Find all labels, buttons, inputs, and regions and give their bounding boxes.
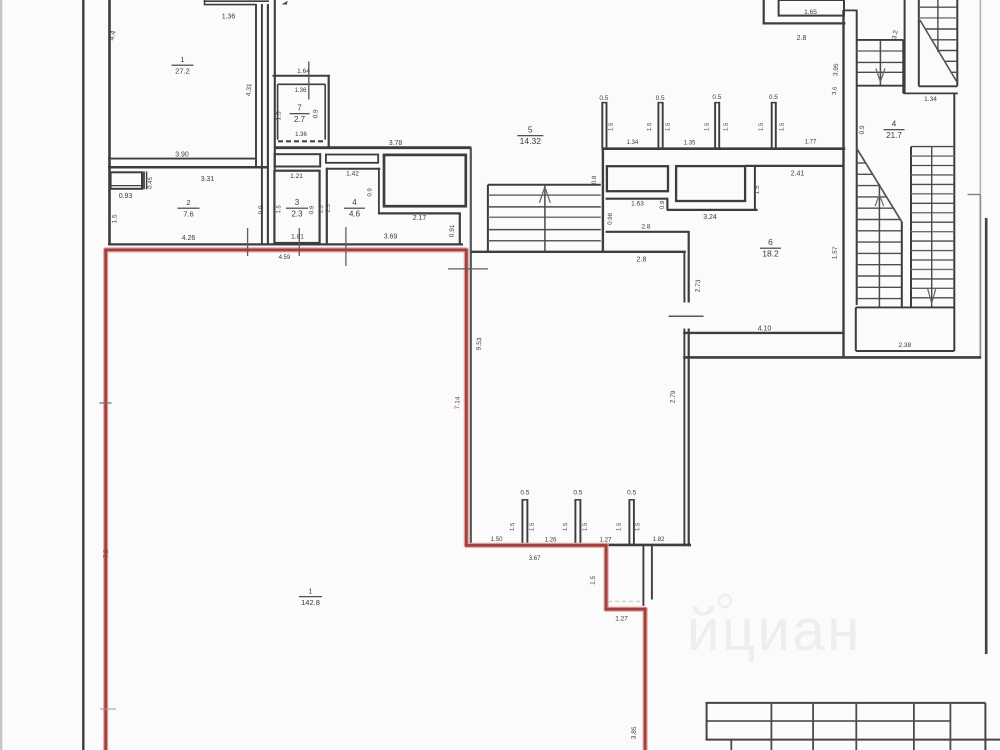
svg-text:0.5: 0.5 [712, 94, 721, 101]
room 4 top wall [326, 168, 380, 170]
big room area label [299, 587, 322, 608]
wall below middle box [667, 209, 758, 211]
stair wall between flights left [856, 11, 858, 306]
bar closet above room 4 [326, 155, 378, 163]
lower-left flight diagonal [857, 148, 902, 221]
svg-text:7: 7 [297, 104, 302, 113]
stair center line middle [544, 185, 546, 252]
svg-text:18.2: 18.2 [762, 249, 779, 259]
room 7 area label [290, 104, 310, 125]
svg-text:1.5: 1.5 [563, 522, 569, 531]
upper-left flight [857, 40, 904, 86]
wall under 2.41 [745, 165, 844, 167]
room 6 left wall outer [688, 231, 690, 546]
svg-text:2.73: 2.73 [694, 279, 702, 292]
svg-text:1.5: 1.5 [635, 522, 641, 531]
tick at right border [968, 194, 981, 196]
corridor wall to room 6 [606, 231, 689, 233]
red outline right upper [465, 249, 468, 547]
room 1 area label [172, 55, 194, 76]
upper-left flight down arrow [876, 68, 885, 81]
cabin stub 4 [771, 103, 777, 148]
building wall right of shaft [470, 148, 472, 546]
svg-text:0.45: 0.45 [147, 176, 154, 189]
tick room4 bottom [345, 227, 347, 266]
room 4 left wall [326, 168, 328, 244]
svg-text:6: 6 [768, 237, 773, 247]
red outline top [104, 248, 467, 251]
svg-text:0.98: 0.98 [607, 212, 614, 225]
svg-text:3.85: 3.85 [630, 726, 638, 739]
svg-text:1.5: 1.5 [510, 522, 516, 531]
svg-text:1.5: 1.5 [616, 522, 622, 531]
svg-text:1: 1 [180, 55, 184, 64]
flights bottom line [856, 306, 955, 308]
top box above room 1 [204, 0, 269, 5]
svg-text:0.5: 0.5 [573, 490, 582, 497]
room 1 right wall line A [255, 4, 257, 167]
svg-text:1.5: 1.5 [779, 122, 785, 131]
svg-text:0.8: 0.8 [592, 175, 598, 184]
svg-text:14.32: 14.32 [520, 136, 542, 146]
svg-text:1.5: 1.5 [582, 522, 588, 531]
svg-text:1.65: 1.65 [804, 9, 817, 16]
room 6 door tick [669, 315, 704, 317]
svg-text:0.93: 0.93 [119, 193, 133, 200]
svg-text:4.31: 4.31 [245, 83, 253, 97]
svg-text:0.5: 0.5 [656, 95, 665, 102]
small box above room 3 [275, 154, 321, 166]
upper-right flight left wall [904, 0, 906, 93]
watermark cian [687, 595, 862, 663]
wall step down [666, 199, 668, 211]
svg-text:2.7: 2.7 [294, 115, 306, 124]
svg-text:1.82: 1.82 [653, 537, 665, 543]
svg-text:0.9: 0.9 [859, 125, 866, 135]
cabin stub 1 [601, 103, 607, 148]
red outline bottom middle [465, 544, 608, 547]
wall below shaft box [378, 212, 461, 214]
upper-right flight box [919, 0, 958, 86]
svg-text:1.77: 1.77 [805, 140, 817, 146]
svg-text:3.69: 3.69 [384, 234, 398, 241]
red outline jog down [605, 544, 608, 611]
svg-text:27.2: 27.2 [175, 67, 190, 76]
room 6 area label [760, 237, 781, 259]
tick room3 bottom [298, 228, 300, 256]
svg-text:2.8: 2.8 [641, 224, 650, 231]
stub wall down left [642, 546, 644, 606]
lower-right flight box [911, 93, 954, 351]
faint remnant line [608, 600, 642, 602]
svg-text:1.5: 1.5 [665, 122, 671, 131]
page border right upper light [979, 0, 981, 195]
svg-text:0.9: 0.9 [312, 109, 319, 119]
room 1 right wall line B [261, 4, 263, 244]
svg-text:1.42: 1.42 [346, 171, 359, 178]
toilet box left [607, 166, 668, 191]
svg-text:3.90: 3.90 [175, 152, 189, 159]
corridor bottom wall [471, 251, 686, 253]
rooms 2-3-4 bottom wall [108, 243, 463, 245]
lower-left flight right edge [901, 222, 903, 308]
svg-text:1.5: 1.5 [647, 122, 653, 131]
svg-text:3: 3 [295, 198, 300, 207]
svg-text:1: 1 [308, 587, 312, 596]
lower-left flight center line [878, 184, 880, 307]
top right room bottom wall [763, 22, 846, 24]
svg-text:1.5: 1.5 [704, 122, 710, 131]
svg-text:4.10: 4.10 [758, 326, 772, 333]
landing line below upper flights [903, 92, 958, 94]
svg-text:1.50: 1.50 [491, 537, 503, 543]
svg-text:1.34: 1.34 [924, 96, 937, 103]
page border right mid [979, 195, 981, 357]
svg-text:21.7: 21.7 [886, 131, 902, 140]
svg-text:2.8: 2.8 [637, 257, 647, 264]
svg-text:1.5: 1.5 [590, 575, 597, 585]
toilet box middle [676, 166, 745, 201]
tick room2 bottom a [247, 228, 249, 256]
room 7 hatched bottom [278, 140, 325, 142]
svg-text:2.38: 2.38 [898, 342, 911, 349]
red outline jog right [605, 608, 647, 611]
room 6 left wall inner [683, 252, 685, 547]
svg-text:2.3: 2.3 [291, 210, 303, 219]
svg-text:1.35: 1.35 [684, 141, 696, 147]
svg-text:1.57: 1.57 [831, 246, 839, 259]
room 1 left wall [108, 0, 111, 168]
svg-text:3.24: 3.24 [703, 214, 717, 221]
top right room left wall [763, 0, 765, 25]
room 5 area label [517, 125, 543, 147]
room 2 area label [178, 198, 200, 219]
shaft box (lift) [384, 155, 466, 206]
upper-right flight treads [919, 7, 958, 72]
page border right dark [985, 218, 988, 654]
wall below room 5 corridor [274, 146, 471, 149]
svg-text:1.21: 1.21 [290, 173, 303, 180]
shaft wall line C [267, 4, 269, 244]
svg-text:3.95: 3.95 [832, 63, 840, 77]
svg-text:9.53: 9.53 [476, 337, 484, 350]
svg-text:0.5: 0.5 [520, 490, 529, 497]
stairwell area label [884, 120, 905, 141]
room 3 area label [286, 198, 308, 219]
upper-right flight diagonal [920, 20, 957, 82]
svg-text:1.36: 1.36 [295, 88, 307, 94]
svg-text:1.36: 1.36 [295, 132, 307, 138]
red outline top glow [104, 249, 646, 750]
title block middle line [706, 720, 951, 722]
svg-text:7.6: 7.6 [183, 210, 194, 219]
wall below left toilet box [606, 198, 669, 200]
svg-text:0.5: 0.5 [769, 94, 778, 101]
stair up arrow middle [539, 187, 550, 203]
svg-text:0.5: 0.5 [627, 490, 636, 497]
svg-text:1.5: 1.5 [758, 122, 764, 131]
svg-text:1.5: 1.5 [529, 522, 535, 531]
svg-text:0.91: 0.91 [448, 224, 456, 237]
svg-text:3.78: 3.78 [389, 140, 403, 147]
svg-text:3.67: 3.67 [529, 556, 541, 562]
stair treads middle [488, 195, 601, 241]
right section main wall [842, 10, 844, 358]
scan edge strip left [0, 0, 2, 750]
svg-text:5: 5 [528, 125, 533, 135]
svg-text:1.5: 1.5 [723, 122, 729, 131]
lower room bottom wall black [604, 544, 691, 547]
svg-text:1.63: 1.63 [631, 201, 644, 208]
title block verticals [707, 703, 986, 750]
room 4 right lower wall [459, 213, 461, 244]
connector wall to stairs [844, 9, 858, 11]
tick left red line upper [100, 402, 112, 404]
corridor left wall below cabins [602, 149, 604, 253]
svg-text:2.79: 2.79 [669, 390, 677, 403]
svg-text:7.14: 7.14 [454, 396, 462, 409]
shaft wall line D / room 7 left wall [274, 0, 276, 170]
room 2 left wall [108, 167, 111, 245]
svg-text:1.64: 1.64 [297, 68, 310, 75]
tick left red line lower [100, 708, 116, 710]
svg-text:1.27: 1.27 [615, 616, 628, 623]
svg-text:1.36: 1.36 [222, 14, 236, 21]
lower-right flight treads [911, 147, 954, 298]
room 6 bottom wall [683, 332, 844, 334]
svg-text:2: 2 [186, 198, 190, 207]
svg-text:4.59: 4.59 [279, 255, 291, 261]
svg-text:142.8: 142.8 [301, 598, 320, 607]
svg-text:1.34: 1.34 [627, 140, 639, 146]
svg-text:2.5: 2.5 [326, 203, 332, 212]
dimension tick through room 7 top wall [308, 62, 310, 100]
red outline right lower [644, 608, 647, 750]
svg-text:4.6: 4.6 [349, 210, 361, 219]
svg-text:7.2: 7.2 [103, 549, 110, 559]
triangle mark [282, 1, 288, 5]
svg-text:2.8: 2.8 [797, 35, 807, 42]
svg-text:4: 4 [352, 198, 357, 207]
svg-text:3.6: 3.6 [832, 86, 839, 95]
lower-left flight up arrow [875, 195, 884, 206]
title block top line [706, 702, 986, 704]
upper-right flight center line [937, 0, 939, 52]
partition stub B [575, 500, 582, 544]
room 7 right wall [328, 75, 330, 149]
stair landing box [856, 307, 955, 351]
svg-text:0.9: 0.9 [367, 187, 373, 196]
svg-text:1.5: 1.5 [275, 111, 282, 121]
svg-text:1.26: 1.26 [545, 538, 557, 544]
room 4 right upper wall [378, 168, 380, 214]
building bottom wall right section [683, 356, 981, 359]
tick across shaft wall [448, 268, 488, 270]
svg-text:йциан: йциан [687, 598, 862, 663]
stub wall down right [651, 546, 653, 600]
svg-text:0.9: 0.9 [660, 200, 666, 209]
svg-text:2.17: 2.17 [413, 215, 427, 222]
lower-left flight treads [856, 163, 902, 299]
top right box [779, 0, 844, 16]
svg-text:1.5: 1.5 [608, 122, 614, 131]
svg-text:0.9: 0.9 [309, 205, 315, 214]
svg-text:4: 4 [892, 120, 897, 129]
closet right double wall [144, 172, 147, 190]
cabin stub 2 [658, 103, 664, 148]
svg-text:1.5: 1.5 [276, 204, 282, 213]
partition stub C [629, 500, 635, 544]
svg-text:1.5: 1.5 [318, 204, 324, 213]
stair box middle [488, 185, 601, 252]
room 4 area label [344, 198, 365, 219]
wall right of middle box [754, 166, 756, 211]
title block lower line [706, 739, 1000, 741]
partition stub A [522, 500, 529, 544]
lower-right flight center line [931, 147, 933, 308]
room 1 / room 2 divider wall lower line [108, 166, 269, 169]
svg-text:2.41: 2.41 [791, 171, 805, 178]
svg-text:1.5: 1.5 [111, 214, 118, 224]
room 1 / room 2 divider wall upper line [108, 158, 256, 160]
room 7 outer top wall [273, 75, 331, 77]
svg-text:1.81: 1.81 [291, 234, 304, 241]
cabins bottom wall [602, 147, 846, 150]
room 3 box walls [274, 171, 319, 243]
svg-text:4.26: 4.26 [182, 235, 196, 242]
svg-text:0.5: 0.5 [599, 95, 608, 102]
cabin stub 3 [714, 103, 720, 148]
svg-text:1.5: 1.5 [754, 185, 761, 195]
red outline left [104, 249, 107, 750]
svg-text:1.27: 1.27 [600, 538, 612, 544]
room 2 closet box [111, 172, 142, 189]
room 7 inner box [278, 84, 326, 139]
svg-text:0.9: 0.9 [258, 205, 265, 215]
lower-right flight down arrow [928, 289, 936, 303]
page border left [82, 0, 84, 750]
upper-left flight right edge [902, 40, 904, 94]
svg-text:3.31: 3.31 [201, 176, 215, 183]
